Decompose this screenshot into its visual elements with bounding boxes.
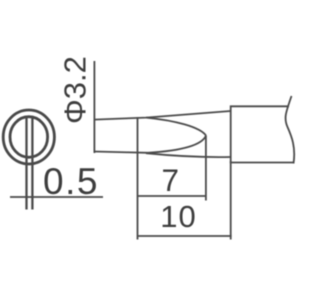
svg-text:7: 7	[162, 162, 180, 198]
svg-text:0.5: 0.5	[43, 161, 99, 202]
svg-text:Φ3.2: Φ3.2	[58, 56, 93, 124]
svg-text:10: 10	[160, 199, 196, 234]
